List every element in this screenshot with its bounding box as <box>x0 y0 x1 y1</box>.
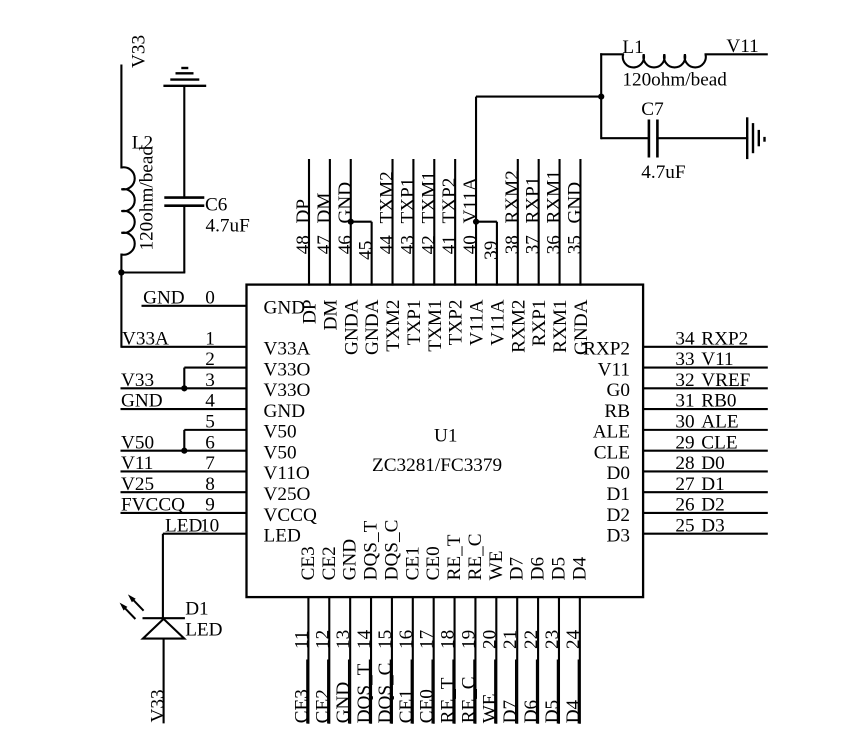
wire pin 4 <box>121 408 248 410</box>
svg-text:D2: D2 <box>701 495 724 516</box>
wire pin 30 <box>642 429 768 431</box>
svg-text:41: 41 <box>439 235 460 254</box>
wire LED anode down <box>163 639 165 724</box>
svg-text:CE0: CE0 <box>423 546 444 580</box>
wire pin 44 <box>391 159 393 286</box>
net label underline pin 13 <box>348 660 350 724</box>
svg-text:29: 29 <box>675 432 694 453</box>
svg-text:35: 35 <box>564 235 585 254</box>
svg-text:D5: D5 <box>542 700 563 723</box>
svg-text:44: 44 <box>377 235 398 255</box>
svg-text:G0: G0 <box>607 380 630 401</box>
LED D1 cathode bar <box>143 617 185 619</box>
wire pin 43 <box>412 159 414 286</box>
svg-text:5: 5 <box>205 411 215 432</box>
svg-text:D1: D1 <box>607 484 630 505</box>
wire pin 14 <box>370 596 372 724</box>
svg-text:FVCCQ: FVCCQ <box>121 495 185 516</box>
svg-text:15: 15 <box>375 630 396 649</box>
svg-text:V11: V11 <box>726 36 758 57</box>
wire pin 2 <box>184 367 247 369</box>
wire riser top to L1 <box>600 53 624 55</box>
wire pin 10 <box>163 533 248 535</box>
wire pin 12 <box>328 596 330 724</box>
svg-text:D4: D4 <box>563 699 584 723</box>
wire pin 20 <box>495 596 497 724</box>
svg-text:11: 11 <box>291 631 312 649</box>
svg-text:DM: DM <box>320 300 341 331</box>
svg-text:20: 20 <box>479 630 500 649</box>
wire pin 35 <box>579 159 581 286</box>
svg-text:32: 32 <box>675 370 694 391</box>
svg-text:43: 43 <box>397 235 418 254</box>
wire pin 29 <box>642 450 768 452</box>
svg-text:C6: C6 <box>205 195 228 216</box>
svg-text:CE2: CE2 <box>319 546 340 580</box>
wire pin 21 <box>516 596 518 724</box>
junction node pin 6 (V50) <box>181 448 187 454</box>
LED emission arrow 1 <box>124 607 135 619</box>
svg-text:RXM1: RXM1 <box>544 170 565 223</box>
wire junction to C6 <box>121 271 185 273</box>
svg-text:CE1: CE1 <box>396 689 417 723</box>
wire pin 36 <box>559 159 561 286</box>
svg-text:36: 36 <box>544 235 565 255</box>
svg-text:GND: GND <box>264 298 306 319</box>
svg-text:RE_T: RE_T <box>438 677 459 723</box>
svg-text:4.7uF: 4.7uF <box>206 216 250 237</box>
wire pin 40 V11A up to bead net <box>475 97 477 286</box>
svg-text:V33: V33 <box>129 35 150 68</box>
svg-text:12: 12 <box>312 630 333 649</box>
svg-text:CLE: CLE <box>701 432 737 453</box>
op-amp U1 IC body ZC3281/FC3379 <box>247 285 644 597</box>
inductor L2 body <box>121 167 134 254</box>
svg-text:120ohm/bead: 120ohm/bead <box>622 70 727 91</box>
capacitor C7 left plate <box>648 120 651 158</box>
wire pin 0 <box>142 305 248 307</box>
svg-text:V11A: V11A <box>467 299 488 345</box>
wire pin 47 <box>329 159 331 286</box>
svg-text:D7: D7 <box>507 557 528 581</box>
svg-text:V33O: V33O <box>264 380 311 401</box>
svg-text:DP: DP <box>293 199 314 224</box>
wire pin 39 (stub to jog) <box>496 222 498 286</box>
wire C6 bottom lead <box>183 207 185 273</box>
svg-text:21: 21 <box>500 630 521 649</box>
svg-text:D6: D6 <box>521 699 542 723</box>
junction node pin 44/45 <box>348 219 354 225</box>
net label underline pin 20 <box>494 660 496 724</box>
wire pin 45 (stub to jog) <box>371 222 373 286</box>
svg-text:CE1: CE1 <box>402 546 423 580</box>
svg-text:LED: LED <box>264 526 301 547</box>
svg-text:TXP1: TXP1 <box>404 300 425 346</box>
svg-text:34: 34 <box>675 328 695 349</box>
svg-text:GND: GND <box>264 401 306 422</box>
svg-text:V50: V50 <box>264 422 297 443</box>
svg-text:14: 14 <box>354 629 375 649</box>
svg-text:V25: V25 <box>121 474 154 495</box>
svg-text:GND: GND <box>333 682 354 724</box>
svg-text:LED: LED <box>165 515 202 536</box>
svg-text:D1: D1 <box>701 474 724 495</box>
svg-text:CE2: CE2 <box>312 689 333 723</box>
svg-text:GND: GND <box>340 539 361 581</box>
svg-text:V50: V50 <box>121 432 154 453</box>
wire L1 to V11 <box>705 53 768 55</box>
wire pin 8 <box>121 491 248 493</box>
svg-text:42: 42 <box>418 235 439 254</box>
svg-text:RXM2: RXM2 <box>508 300 529 353</box>
svg-text:RE_C: RE_C <box>458 676 479 723</box>
svg-text:GNDA: GNDA <box>341 299 362 355</box>
svg-text:RXP2: RXP2 <box>701 328 748 349</box>
svg-text:L1: L1 <box>622 37 643 58</box>
wire pin 18 <box>454 596 456 724</box>
wire pin40 net to bead riser <box>476 96 601 98</box>
svg-text:27: 27 <box>675 474 695 495</box>
svg-text:45: 45 <box>356 241 377 260</box>
svg-text:GND: GND <box>143 287 185 308</box>
svg-text:46: 46 <box>335 235 356 255</box>
svg-text:D3: D3 <box>607 526 630 547</box>
svg-text:DQS_C: DQS_C <box>375 663 396 724</box>
svg-text:TXM1: TXM1 <box>418 171 439 223</box>
svg-text:TXP1: TXP1 <box>397 178 418 224</box>
svg-text:V33: V33 <box>148 689 169 722</box>
svg-text:1: 1 <box>205 328 215 349</box>
wire pin 23 <box>558 596 560 724</box>
svg-text:WE: WE <box>486 551 507 581</box>
svg-text:CE3: CE3 <box>291 689 312 723</box>
svg-text:V33O: V33O <box>264 359 311 380</box>
wire pin 19 <box>474 596 476 724</box>
net label underline pin 19 <box>473 660 475 724</box>
svg-text:4: 4 <box>205 391 215 412</box>
svg-text:V33: V33 <box>121 370 154 391</box>
svg-text:23: 23 <box>542 630 563 649</box>
svg-text:17: 17 <box>417 629 438 649</box>
wire pin 28 <box>642 470 768 472</box>
wire jog pin 2 to pin 3 <box>183 368 185 390</box>
svg-text:VREF: VREF <box>701 370 750 391</box>
svg-text:TXM2: TXM2 <box>377 171 398 223</box>
svg-text:V33A: V33A <box>122 328 169 349</box>
net label underline pin 18 <box>452 660 454 724</box>
svg-text:DQS_T: DQS_T <box>361 520 382 580</box>
svg-text:3: 3 <box>205 370 215 391</box>
wire pin 22 <box>537 596 539 724</box>
wire pin 38 <box>517 159 519 286</box>
svg-text:TXM2: TXM2 <box>383 300 404 352</box>
svg-text:D6: D6 <box>528 557 549 581</box>
wire pin 7 <box>121 470 248 472</box>
capacitor C6 top plate <box>164 196 204 199</box>
svg-text:6: 6 <box>205 432 215 453</box>
wire pin 1 <box>121 346 247 348</box>
svg-text:48: 48 <box>293 235 314 254</box>
wire V33 down to L2 <box>120 65 122 169</box>
ground symbol (top right, earth) <box>746 117 748 159</box>
capacitor C6 bottom plate <box>164 204 204 207</box>
net label underline pin 23 <box>556 660 558 724</box>
svg-text:VCCQ: VCCQ <box>264 505 317 526</box>
wire pin 15 <box>391 596 393 724</box>
wire pin 41 <box>454 159 456 286</box>
wire pin 11 <box>307 596 309 724</box>
wire pin 25 <box>642 533 768 535</box>
svg-text:RXM1: RXM1 <box>550 300 571 353</box>
svg-text:V11: V11 <box>701 349 733 370</box>
svg-text:CLE: CLE <box>594 442 630 463</box>
svg-text:V33A: V33A <box>264 339 311 360</box>
svg-text:120ohm/bead: 120ohm/bead <box>137 146 158 251</box>
svg-text:33: 33 <box>675 349 694 370</box>
wire pin 5 <box>184 429 247 431</box>
wire pin 46 <box>350 159 352 286</box>
net label underline pin 17 <box>431 660 433 724</box>
svg-text:DQS_C: DQS_C <box>381 520 402 581</box>
svg-text:9: 9 <box>205 495 215 516</box>
wire L2 to junction <box>120 254 122 348</box>
junction node pin 38/39 <box>473 219 479 225</box>
svg-text:4.7uF: 4.7uF <box>641 162 685 183</box>
wire pin 32 <box>642 387 768 389</box>
svg-text:RE_T: RE_T <box>444 534 465 580</box>
capacitor C7 right plate <box>656 120 659 158</box>
wire pin 33 <box>642 367 768 369</box>
wire pin 17 <box>433 596 435 724</box>
wire pin 27 <box>642 491 768 493</box>
wire pin10 corner down to LED <box>162 534 164 619</box>
net label underline pin 22 <box>536 660 538 724</box>
svg-text:CE0: CE0 <box>417 689 438 723</box>
wire pin 13 <box>349 596 351 724</box>
wire pin 26 <box>642 512 768 514</box>
svg-text:GND: GND <box>121 391 163 412</box>
svg-text:D0: D0 <box>607 463 630 484</box>
svg-text:LED: LED <box>185 620 222 641</box>
svg-text:GND: GND <box>335 182 356 224</box>
wire pin 42 <box>433 159 435 286</box>
net label underline pin 21 <box>515 660 517 724</box>
svg-text:2: 2 <box>205 349 215 370</box>
net label underline pin 24 <box>577 660 579 724</box>
svg-text:30: 30 <box>675 411 694 432</box>
net label underline pin 12 <box>327 660 329 724</box>
svg-text:RXP1: RXP1 <box>529 300 550 347</box>
LED emission arrow 2 <box>132 599 143 611</box>
ground symbol (top left, earth) <box>163 85 206 87</box>
svg-text:13: 13 <box>333 630 354 649</box>
wire pin 31 <box>642 408 768 410</box>
svg-text:RB0: RB0 <box>701 391 736 412</box>
junction node V33A net <box>118 269 124 275</box>
svg-text:25: 25 <box>675 515 694 536</box>
svg-text:CE3: CE3 <box>298 546 319 580</box>
svg-text:24: 24 <box>563 629 584 649</box>
svg-text:TXP2: TXP2 <box>446 300 467 346</box>
wire pin 6 <box>121 450 248 452</box>
svg-text:37: 37 <box>523 235 544 255</box>
svg-text:D4: D4 <box>569 557 590 581</box>
svg-text:V11O: V11O <box>264 463 310 484</box>
junction node pin 3 (V33) <box>181 385 187 391</box>
svg-text:22: 22 <box>521 630 542 649</box>
svg-text:26: 26 <box>675 495 695 516</box>
wire pin 24 <box>579 596 581 724</box>
svg-text:V11: V11 <box>598 359 630 380</box>
svg-text:GNDA: GNDA <box>362 299 383 355</box>
wire jog pin 45 to neighbour <box>351 221 372 223</box>
wire pin 48 <box>308 159 310 286</box>
svg-text:31: 31 <box>675 391 694 412</box>
svg-text:V11A: V11A <box>487 299 508 345</box>
svg-text:V11: V11 <box>121 453 153 474</box>
svg-text:D0: D0 <box>701 453 724 474</box>
svg-text:7: 7 <box>205 453 215 474</box>
wire pin 37 <box>538 159 540 286</box>
LED D1 triangle <box>143 619 184 639</box>
svg-text:28: 28 <box>675 453 694 474</box>
svg-text:DQS_T: DQS_T <box>354 663 375 723</box>
svg-text:D5: D5 <box>548 557 569 580</box>
svg-text:39: 39 <box>481 241 502 260</box>
wire jog pin 5 to pin 6 <box>183 430 185 452</box>
svg-text:16: 16 <box>396 629 417 649</box>
svg-text:DM: DM <box>314 193 335 224</box>
svg-text:V25O: V25O <box>264 484 311 505</box>
net label underline pin 11 <box>306 660 308 724</box>
svg-text:V11A: V11A <box>460 177 481 223</box>
svg-text:GND: GND <box>564 182 585 224</box>
wire jog pin 39 to neighbour <box>476 221 497 223</box>
svg-text:19: 19 <box>458 630 479 649</box>
net label underline pin 14 <box>369 660 371 724</box>
svg-text:18: 18 <box>438 630 459 649</box>
svg-text:TXP2: TXP2 <box>439 178 460 224</box>
svg-text:0: 0 <box>205 287 215 308</box>
svg-text:RXM2: RXM2 <box>502 170 523 223</box>
wire pin 3 <box>121 387 248 389</box>
svg-text:D3: D3 <box>701 515 724 536</box>
svg-text:RXP1: RXP1 <box>523 177 544 224</box>
svg-text:WE: WE <box>479 693 500 723</box>
svg-text:38: 38 <box>502 235 523 254</box>
svg-text:V50: V50 <box>264 442 297 463</box>
wire pin 34 <box>642 346 768 348</box>
svg-text:D2: D2 <box>607 505 630 526</box>
svg-text:D7: D7 <box>500 699 521 723</box>
net label underline pin 15 <box>389 660 391 724</box>
wire C6 to ground <box>183 86 185 199</box>
junction node bead riser <box>598 94 604 100</box>
svg-text:RE_C: RE_C <box>465 533 486 580</box>
wire pin 16 <box>412 596 414 724</box>
inductor L1 body <box>623 54 706 67</box>
svg-text:RB: RB <box>604 401 630 422</box>
svg-text:ZC3281/FC3379: ZC3281/FC3379 <box>372 455 502 476</box>
wire riser to C7 <box>601 137 650 139</box>
svg-text:C7: C7 <box>641 99 664 120</box>
svg-text:47: 47 <box>314 235 335 255</box>
svg-text:8: 8 <box>205 474 215 495</box>
svg-text:ALE: ALE <box>701 411 738 432</box>
svg-text:TXM1: TXM1 <box>425 300 446 352</box>
wire riser vertical <box>600 53 602 139</box>
wire pin 9 <box>121 512 248 514</box>
net label underline pin 16 <box>410 660 412 724</box>
svg-text:40: 40 <box>460 235 481 254</box>
svg-text:RXP2: RXP2 <box>583 339 630 360</box>
svg-text:U1: U1 <box>434 426 457 447</box>
wire C7 to ground <box>656 137 748 139</box>
svg-text:D1: D1 <box>185 599 208 620</box>
svg-text:10: 10 <box>200 515 219 536</box>
svg-text:ALE: ALE <box>593 422 630 443</box>
